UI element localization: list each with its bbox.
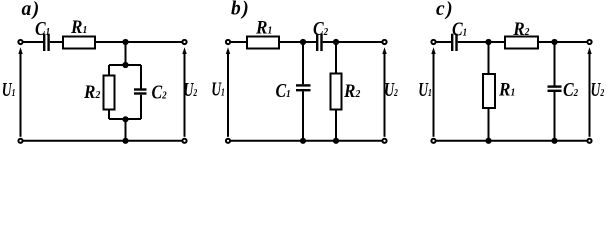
svg-text:C1: C1 xyxy=(35,17,50,39)
svg-text:C1: C1 xyxy=(276,79,291,101)
svg-text:R2: R2 xyxy=(343,80,360,101)
svg-text:R1: R1 xyxy=(255,16,272,37)
svg-text:b): b) xyxy=(231,0,249,20)
svg-text:R1: R1 xyxy=(70,16,87,37)
svg-text:R2: R2 xyxy=(512,18,529,39)
svg-text:U1: U1 xyxy=(211,78,225,100)
svg-text:C2: C2 xyxy=(152,81,167,103)
svg-text:R1: R1 xyxy=(498,79,515,100)
svg-text:U2: U2 xyxy=(384,79,398,101)
svg-text:U2: U2 xyxy=(591,79,605,101)
svg-text:C1: C1 xyxy=(452,18,467,40)
svg-text:C2: C2 xyxy=(313,18,328,40)
svg-text:U1: U1 xyxy=(2,79,16,101)
svg-text:C2: C2 xyxy=(563,79,578,101)
svg-text:c): c) xyxy=(436,0,453,20)
svg-text:U1: U1 xyxy=(418,79,432,101)
svg-text:R2: R2 xyxy=(83,81,100,102)
svg-text:U2: U2 xyxy=(184,79,198,101)
